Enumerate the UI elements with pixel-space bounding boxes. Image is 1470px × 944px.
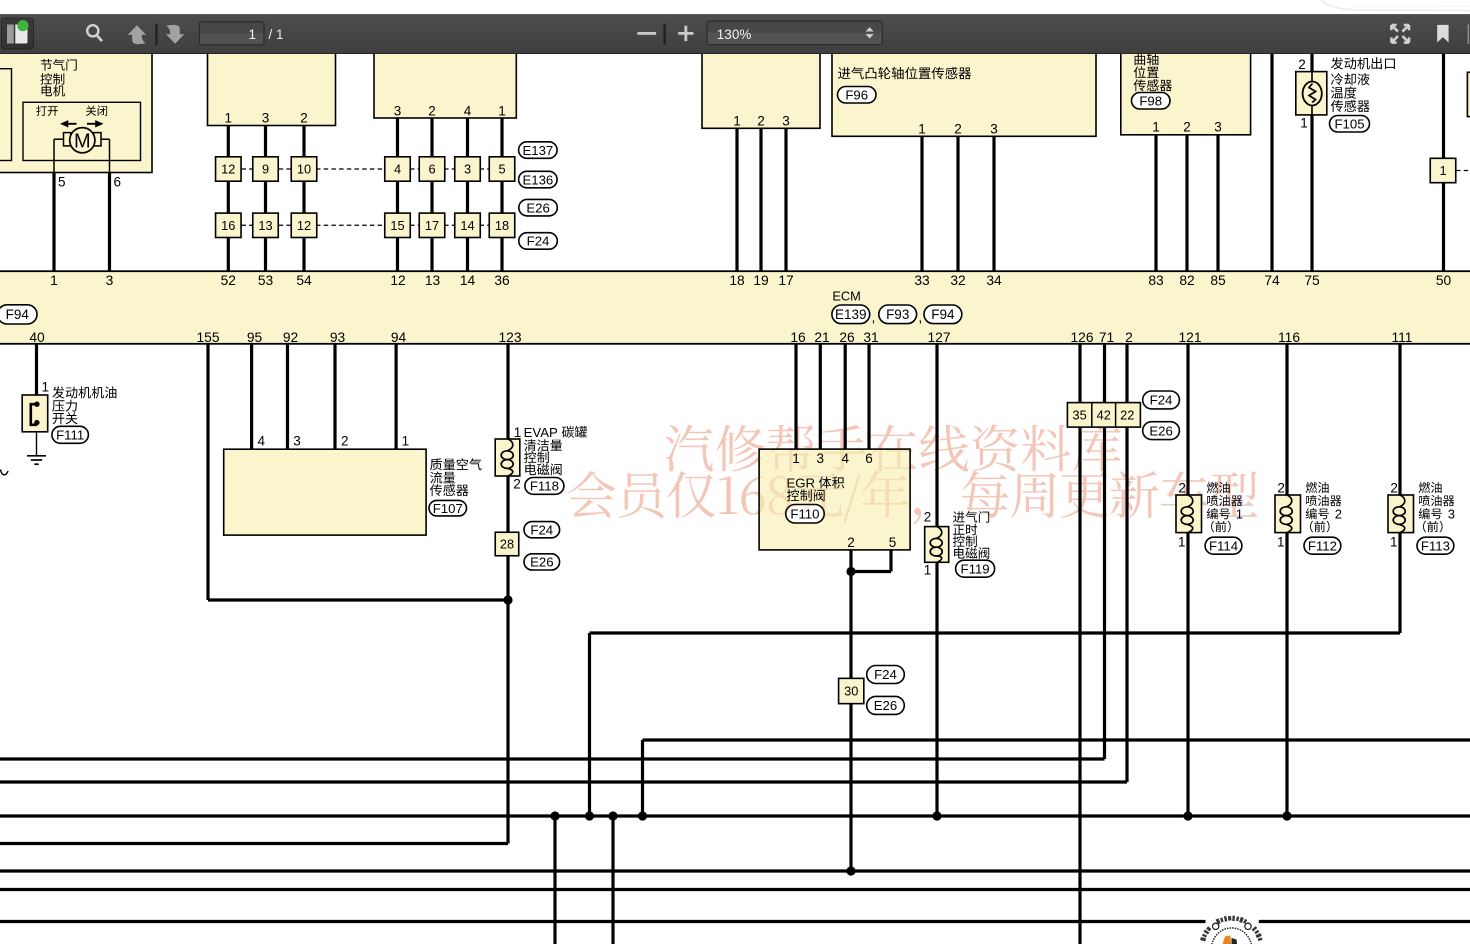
wire injector3 run: y633 left to x589.5 then down to bus y816	[590, 633, 1401, 816]
svg-text:2: 2	[1178, 481, 1186, 496]
svg-text:14: 14	[460, 273, 476, 288]
svg-text:127: 127	[927, 330, 950, 345]
svg-text:95: 95	[247, 330, 263, 345]
svg-text:19: 19	[753, 273, 769, 288]
svg-text:4: 4	[464, 104, 472, 119]
bus y816 full width	[0, 814, 1470, 817]
svg-text:71: 71	[1099, 330, 1114, 345]
svg-text:18: 18	[495, 218, 509, 233]
svg-text:/ 1: / 1	[269, 27, 284, 42]
wire ECM pin 50 with pass-through square 1	[1430, 46, 1470, 272]
svg-text:1: 1	[1277, 535, 1285, 550]
mass air flow sensor F107 (质量空气流量传感器)	[224, 434, 482, 536]
oil pressure switch F111 (发动机机油压力开关) with ground	[22, 344, 49, 432]
bus y871 full width with junction from EGR wire	[0, 866, 1470, 875]
page number input	[200, 21, 265, 44]
wire ECM 126 to bottom edge through square 35	[1078, 344, 1081, 944]
svg-text:21: 21	[814, 330, 829, 345]
svg-text:2: 2	[341, 434, 349, 449]
svg-text:16: 16	[221, 218, 235, 233]
svg-text:1: 1	[248, 27, 256, 42]
component box 3 (pins 3 2 4 1)	[374, 46, 516, 119]
svg-text:9: 9	[262, 162, 269, 177]
svg-text:F24: F24	[530, 522, 553, 537]
svg-text:1: 1	[50, 273, 58, 288]
svg-text:94: 94	[391, 330, 407, 345]
dashed links row1	[242, 168, 491, 170]
pass-through square 28 with F24 E26 ovals	[495, 522, 559, 570]
svg-text:34: 34	[986, 273, 1002, 288]
svg-text:1: 1	[225, 111, 233, 126]
bookmark icon	[1437, 24, 1448, 42]
svg-text:5: 5	[498, 162, 505, 177]
wire down from x613 to bottom edge	[611, 816, 614, 944]
svg-text:,: ,	[872, 309, 876, 325]
svg-text:13: 13	[258, 218, 272, 233]
svg-text:F96: F96	[845, 87, 868, 102]
svg-text:2: 2	[1335, 506, 1342, 521]
svg-text:1: 1	[924, 563, 932, 578]
crankshaft position sensor F98 (曲轴位置传感器)	[1121, 46, 1251, 135]
next page arrow	[166, 24, 184, 43]
svg-text:42: 42	[1097, 407, 1111, 422]
svg-text:F112: F112	[1308, 538, 1337, 553]
svg-text:26: 26	[839, 330, 855, 345]
junction dots on bus y816	[550, 811, 1291, 820]
svg-text:15: 15	[390, 218, 404, 233]
EVAP purge control solenoid F118 (EVAP碳罐清洁量控制电磁阀)	[495, 344, 587, 601]
svg-text:F93: F93	[886, 307, 909, 322]
EGR volume control valve F110 (EGR体积控制阀)	[759, 449, 910, 550]
svg-text:1: 1	[42, 380, 50, 395]
svg-text:2: 2	[300, 111, 308, 126]
bus y889.5 full width	[0, 888, 1470, 891]
wire down from x555 to bottom edge	[553, 816, 556, 944]
svg-text:2: 2	[924, 509, 932, 524]
svg-text:35: 35	[1072, 407, 1086, 422]
svg-text:18: 18	[729, 273, 745, 288]
search (magnifier) icon	[87, 25, 102, 41]
svg-text:F110: F110	[790, 506, 819, 521]
svg-text:1: 1	[1390, 535, 1398, 550]
svg-text:F24: F24	[527, 234, 550, 249]
wires box4 pins to ECM 18 19 17	[737, 128, 786, 271]
faint page corner curve in white strip	[1321, 0, 1470, 11]
svg-text:5: 5	[889, 535, 897, 550]
svg-text:82: 82	[1179, 273, 1194, 288]
svg-text:130%: 130%	[717, 26, 752, 41]
svg-text:5: 5	[58, 175, 66, 190]
svg-text:F24: F24	[1150, 393, 1173, 408]
svg-text:123: 123	[498, 330, 521, 345]
throttle control motor box (节气门控制电机)	[0, 46, 152, 173]
wires box2 pins to ECM 52 53 54	[228, 126, 304, 272]
svg-text:2: 2	[1125, 330, 1133, 345]
component box 4 (pins 1 2 3)	[702, 46, 820, 129]
ECM band E139 F93 F94	[0, 271, 1470, 344]
clipped component box at right edge	[1467, 72, 1470, 116]
svg-text:40: 40	[29, 330, 45, 345]
svg-text:116: 116	[1278, 330, 1300, 345]
svg-text:1: 1	[1300, 116, 1308, 131]
svg-text:E26: E26	[1149, 423, 1172, 438]
svg-text:33: 33	[914, 273, 930, 288]
svg-text:F107: F107	[433, 501, 463, 516]
svg-text:1: 1	[733, 114, 741, 129]
wire bus y740 from x642.5 to right edge	[643, 740, 1470, 816]
svg-text:E137: E137	[522, 143, 553, 158]
presentation mode (fullscreen) icon	[1391, 25, 1409, 43]
svg-text:F105: F105	[1334, 116, 1364, 131]
previous page arrow	[128, 25, 146, 44]
svg-text:1: 1	[402, 434, 410, 449]
junction dot x508 y600	[503, 595, 512, 604]
svg-text:1: 1	[1236, 506, 1243, 521]
zoom level dropdown 130%	[707, 21, 882, 45]
svg-text:155: 155	[196, 330, 219, 345]
svg-text:2: 2	[954, 122, 962, 137]
svg-text:F111: F111	[56, 428, 84, 443]
svg-text:28: 28	[500, 537, 514, 552]
svg-text:53: 53	[258, 273, 274, 288]
svg-text:83: 83	[1148, 273, 1164, 288]
svg-text:F94: F94	[6, 307, 30, 322]
ECM top pin numbers	[50, 273, 1451, 288]
svg-text:3: 3	[394, 104, 402, 119]
svg-text:126: 126	[1070, 330, 1093, 345]
svg-text:30: 30	[844, 684, 858, 699]
wire EGR junction down through square 30 to bus y871	[849, 572, 852, 872]
svg-text:74: 74	[1264, 273, 1280, 288]
wires F98 pins to ECM 83 82 85	[1156, 135, 1218, 272]
svg-text:1: 1	[792, 451, 800, 466]
svg-text:1: 1	[514, 425, 522, 440]
svg-text:2: 2	[428, 104, 436, 119]
engine coolant temperature sensor F105 (发动机出口冷却液温度传感器)	[1296, 46, 1395, 272]
svg-text:4: 4	[257, 434, 265, 449]
svg-text:14: 14	[460, 218, 474, 233]
component box 2 (pins 1 3 2)	[208, 46, 336, 126]
wires ECM 95 92 93 94 to MAF sensor	[252, 344, 397, 450]
svg-text:2: 2	[1298, 57, 1306, 72]
connector ovals E137 E136 E26 F24	[519, 142, 558, 249]
pass-through square 30 with F24 E26 ovals	[839, 666, 905, 715]
svg-text:2: 2	[1390, 481, 1398, 496]
svg-text:,: ,	[918, 309, 922, 325]
svg-text:3: 3	[1214, 120, 1222, 135]
dashed links row2	[242, 224, 491, 226]
svg-text:E26: E26	[874, 698, 897, 713]
motor M symbol	[54, 128, 121, 190]
svg-text:121: 121	[1178, 330, 1201, 345]
watermark line1 汽修帮手在线资料库	[665, 424, 1121, 471]
svg-text:6: 6	[428, 162, 435, 177]
circular seal watermark bottom	[1200, 916, 1262, 944]
svg-text:3: 3	[262, 111, 270, 126]
wire throttle motor pin5 to ECM pin1	[52, 173, 55, 272]
svg-text:52: 52	[221, 273, 236, 288]
ECM bottom pin numbers	[29, 330, 1412, 345]
svg-text:54: 54	[296, 273, 312, 288]
svg-text:1: 1	[1178, 535, 1186, 550]
svg-text:4: 4	[394, 162, 401, 177]
wire ECM 155 to junction at x508	[208, 344, 508, 601]
connector squares row1: 12 9 10 / 4 6 3 5	[216, 157, 515, 181]
svg-text:ECM: ECM	[832, 289, 860, 304]
svg-text:17: 17	[425, 218, 439, 233]
zoom out (minus)	[637, 32, 656, 35]
wires box3 pins to ECM 12 13 14 36	[398, 118, 503, 272]
svg-text:F113: F113	[1421, 538, 1450, 553]
svg-text:1: 1	[1152, 120, 1160, 135]
svg-text:E136: E136	[522, 172, 553, 187]
svg-text:2: 2	[847, 535, 855, 550]
intake valve timing control solenoid F119 (进气门正时控制电磁阀)	[924, 344, 995, 817]
fuel injector no.2 front F112 (燃油喷油器编号2)	[1275, 344, 1342, 817]
separator	[155, 23, 157, 44]
svg-text:12: 12	[297, 218, 311, 233]
svg-text:16: 16	[790, 330, 806, 345]
svg-text:3: 3	[464, 162, 471, 177]
svg-text:3: 3	[293, 434, 301, 449]
svg-text:13: 13	[425, 273, 441, 288]
svg-text:3: 3	[990, 122, 998, 137]
svg-text:2: 2	[757, 114, 765, 129]
wires ECM 16 21 26 31 to EGR valve	[796, 344, 869, 451]
svg-text:17: 17	[778, 273, 793, 288]
svg-text:EGR: EGR	[787, 476, 816, 491]
svg-text:36: 36	[494, 273, 510, 288]
svg-text:F119: F119	[961, 561, 990, 576]
svg-text:3: 3	[106, 273, 114, 288]
fuel injector no.3 front F113 (燃油喷油器编号3)	[1388, 344, 1455, 634]
pass-through squares 35 42 22 with F24 E26 ovals	[1067, 391, 1179, 440]
svg-text:F24: F24	[874, 667, 897, 682]
svg-text:2: 2	[513, 476, 521, 491]
svg-text:22: 22	[1120, 407, 1134, 422]
svg-text:M: M	[74, 130, 91, 152]
svg-text:12: 12	[221, 162, 235, 177]
right separator	[1467, 24, 1469, 44]
fuel injector no.1 front F114 (燃油喷油器编号1)	[1176, 344, 1243, 817]
svg-text:1: 1	[918, 122, 926, 137]
svg-text:10: 10	[297, 162, 311, 177]
svg-text:32: 32	[950, 273, 965, 288]
svg-text:2: 2	[1183, 120, 1191, 135]
svg-text:F94: F94	[931, 307, 955, 322]
svg-text:92: 92	[283, 330, 298, 345]
svg-text:F118: F118	[530, 479, 559, 494]
wire throttle motor pin6 to ECM pin3	[108, 173, 111, 272]
svg-text:31: 31	[863, 330, 878, 345]
svg-text:1: 1	[1439, 163, 1446, 178]
svg-text:F98: F98	[1139, 93, 1162, 108]
separator	[663, 23, 665, 44]
svg-text:F114: F114	[1209, 538, 1238, 553]
svg-text:111: 111	[1392, 330, 1413, 345]
ground symbol below F111	[27, 432, 46, 464]
svg-text:12: 12	[390, 273, 405, 288]
svg-text:3: 3	[782, 114, 790, 129]
bus y921.5 interrupted by seal	[0, 920, 1470, 923]
wire 123 junction down to bus y843.5 turning left	[0, 600, 508, 844]
svg-text:93: 93	[330, 330, 346, 345]
svg-text:6: 6	[114, 175, 122, 190]
svg-text:EVAP: EVAP	[524, 425, 558, 440]
intake camshaft position sensor F96 (进气凸轮轴位置传感器)	[832, 46, 1096, 137]
svg-text:2: 2	[1277, 481, 1285, 496]
wire ECM 2 through square 22 to bus y782	[0, 344, 1127, 783]
EGR pins 2 and 5 join at junction	[846, 550, 891, 576]
wire ECM pin 74	[1270, 46, 1273, 272]
svg-text:3: 3	[1448, 506, 1455, 521]
svg-text:1: 1	[498, 104, 506, 119]
svg-text:E139: E139	[835, 307, 867, 322]
connector squares row2: 16 13 12 / 15 17 14 18	[216, 213, 515, 237]
page count label	[269, 27, 284, 42]
svg-text:75: 75	[1304, 273, 1320, 288]
wires F96 pins to ECM 33 32 34	[922, 136, 994, 271]
svg-text:6: 6	[865, 451, 873, 466]
svg-text:E26: E26	[526, 200, 549, 215]
wire ECM 71 through square 42 to bus y759	[0, 344, 1105, 760]
sidebar toggle button with notification dot	[2, 18, 34, 49]
svg-text:E26: E26	[530, 555, 553, 570]
PDF viewer toolbar	[0, 14, 1470, 55]
watermark line2 会员仅168元/年，每周更新车型	[568, 470, 1258, 524]
zoom in (plus)	[678, 25, 693, 40]
svg-text:85: 85	[1210, 273, 1226, 288]
F111 labels	[52, 386, 117, 443]
svg-text:50: 50	[1436, 273, 1452, 288]
small stray curve at left edge	[1, 470, 9, 475]
